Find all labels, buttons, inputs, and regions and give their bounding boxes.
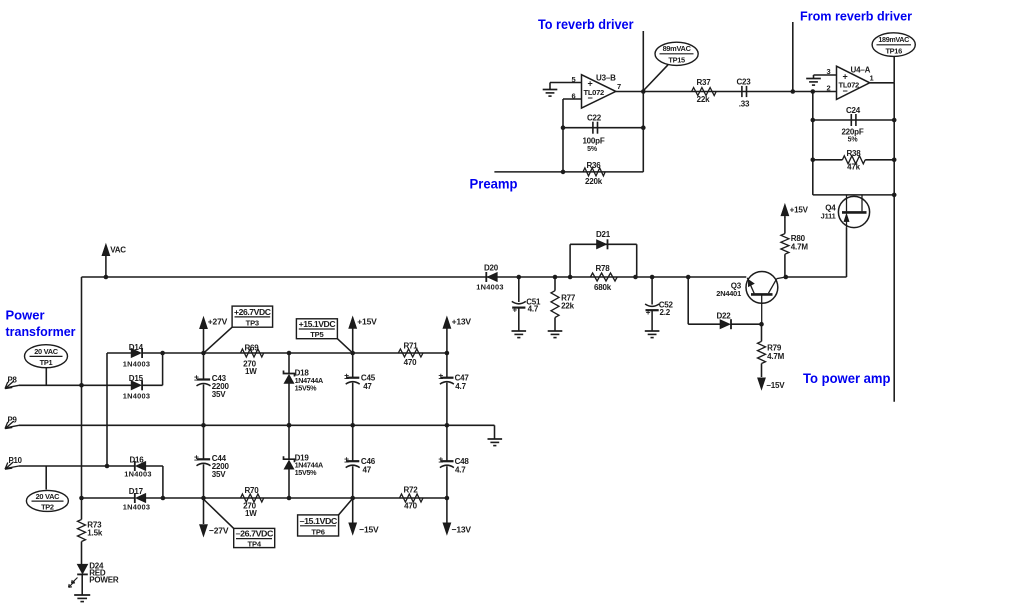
svg-text:89mVAC: 89mVAC <box>663 44 692 53</box>
svg-text:1W: 1W <box>245 367 257 376</box>
svg-text:TP5: TP5 <box>310 330 324 339</box>
capacitor C45 <box>344 353 375 425</box>
wire main mute row <box>82 276 747 278</box>
svg-text:+15V: +15V <box>790 206 809 215</box>
node neg rail left <box>79 496 84 501</box>
svg-text:5%: 5% <box>848 137 859 144</box>
wire P9 gnd drop <box>494 425 496 439</box>
node D18 bottom <box>287 423 292 428</box>
power VAC arrow <box>102 244 126 277</box>
svg-text:U3–B: U3–B <box>596 74 616 83</box>
power +15V arrow R80 <box>781 204 809 218</box>
capacitor C22 <box>582 114 604 154</box>
capacitor C24 <box>841 106 863 144</box>
svg-text:P9: P9 <box>8 416 18 425</box>
svg-text:189mVAC: 189mVAC <box>878 35 909 44</box>
svg-text:1N4003: 1N4003 <box>123 360 150 369</box>
testpoint box TP3 <box>205 306 273 352</box>
svg-text:D20: D20 <box>484 263 499 272</box>
svg-text:±: ± <box>344 371 349 381</box>
wire U4 out <box>870 82 895 84</box>
node C45 bottom <box>350 423 355 428</box>
diode D20 <box>476 263 503 291</box>
resistor R37 <box>692 78 717 104</box>
ground C51 <box>512 331 527 338</box>
resistor R72 <box>400 486 424 511</box>
label Preamp <box>470 177 518 192</box>
svg-text:4.7: 4.7 <box>528 305 539 314</box>
svg-text:D21: D21 <box>596 230 611 239</box>
node R38 left <box>811 158 816 163</box>
node C43 bottom <box>201 423 206 428</box>
svg-text:R38: R38 <box>846 149 861 158</box>
label To reverb driver <box>538 16 634 32</box>
wire D16 down <box>146 466 163 498</box>
wire VAC corner <box>81 277 83 498</box>
wire P10 row <box>19 465 135 467</box>
svg-text:15V5%: 15V5% <box>295 468 318 477</box>
node U4 pin2 rail <box>811 89 816 94</box>
node R38 right <box>892 158 897 163</box>
resistor R70 <box>241 486 264 518</box>
node D21 left <box>568 275 573 280</box>
svg-text:TP15: TP15 <box>668 55 685 64</box>
label From reverb driver <box>800 9 912 24</box>
svg-text:470: 470 <box>404 502 417 511</box>
wire U3 pin5 <box>550 83 582 90</box>
svg-text:R71: R71 <box>403 341 418 350</box>
svg-text:+27V: +27V <box>208 316 228 326</box>
power -15V arrow R79 <box>758 378 786 390</box>
node P10 <box>105 464 110 469</box>
resistor R71 <box>398 341 423 367</box>
node D18 top <box>287 351 292 356</box>
svg-text:7: 7 <box>617 82 621 91</box>
wire TP15 pointer <box>644 65 668 90</box>
svg-text:Power: Power <box>6 308 45 323</box>
testpoint TP2 20VAC <box>26 466 68 511</box>
wire P9 row <box>19 424 495 426</box>
wire negative rail <box>82 497 447 499</box>
svg-text:1N4003: 1N4003 <box>123 392 150 401</box>
connector P8 <box>5 376 19 389</box>
wire U3 left rail <box>562 99 564 172</box>
svg-text:D22: D22 <box>716 312 731 321</box>
diode D15 <box>123 374 150 401</box>
node R36 left <box>561 170 566 175</box>
power +15V arrow <box>349 316 377 353</box>
svg-text:C22: C22 <box>587 114 602 123</box>
transistor Q3 2N4401 <box>716 272 786 325</box>
svg-text:R36: R36 <box>586 161 601 170</box>
node VAC junction <box>104 275 109 280</box>
wire Q3 collector to Q4 <box>786 276 847 278</box>
svg-text:47k: 47k <box>847 163 860 172</box>
svg-text:−27V: −27V <box>209 526 229 536</box>
svg-text:4.7: 4.7 <box>455 382 466 391</box>
node D16-D17 <box>161 496 166 501</box>
svg-text:P8: P8 <box>8 376 18 385</box>
node C44 bottom <box>201 496 206 501</box>
svg-text:+15.1VDC: +15.1VDC <box>299 320 336 329</box>
svg-text:1W: 1W <box>245 509 257 518</box>
svg-text:C23: C23 <box>736 77 751 86</box>
svg-text:100pF: 100pF <box>582 137 604 146</box>
svg-text:4.7: 4.7 <box>455 465 466 474</box>
svg-text:TL072: TL072 <box>839 81 860 90</box>
node C23-U4 junction <box>791 89 796 94</box>
svg-text:TP4: TP4 <box>248 539 262 548</box>
resistor R77 <box>551 277 576 331</box>
svg-text:+: + <box>646 308 651 317</box>
node C22 left <box>561 125 566 130</box>
wire D21 branch <box>570 244 637 277</box>
connector P9 <box>5 416 19 429</box>
ground D24 <box>74 595 90 602</box>
svg-text:22k: 22k <box>697 95 710 104</box>
wire D15 up <box>143 353 163 385</box>
power +13V arrow <box>443 316 472 353</box>
resistor R80 <box>781 218 808 278</box>
wire C22 row <box>563 127 643 129</box>
capacitor C44 <box>194 425 229 498</box>
transistor Q4 J111 <box>821 195 870 228</box>
wire U4 right rail <box>893 83 895 402</box>
node D22-R79 <box>759 322 764 327</box>
svg-text:±: ± <box>194 452 199 462</box>
capacitor C46 <box>344 425 375 498</box>
svg-text:C24: C24 <box>846 106 861 115</box>
svg-text:To reverb driver: To reverb driver <box>538 16 634 32</box>
svg-text:±: ± <box>438 371 443 381</box>
wire positive rail <box>143 352 447 354</box>
svg-text:R69: R69 <box>244 343 259 352</box>
svg-text:22k: 22k <box>561 301 574 310</box>
diode D17 <box>123 487 150 512</box>
resistor R36 <box>583 161 605 186</box>
label To power amp <box>803 371 891 386</box>
resistor R73 <box>78 498 103 564</box>
diode D22 <box>716 312 731 330</box>
capacitor C43 <box>194 353 229 425</box>
svg-text:47: 47 <box>363 382 372 391</box>
node C24 right <box>892 118 897 123</box>
LED D24 RED POWER <box>69 561 119 594</box>
power -27V arrow <box>200 498 229 537</box>
node R78 right <box>633 275 638 280</box>
node C51 top <box>517 275 522 280</box>
svg-text:1.5k: 1.5k <box>87 528 103 537</box>
svg-text:4.7M: 4.7M <box>767 352 785 361</box>
ground U3 pin5 <box>543 90 558 97</box>
svg-text:4.7M: 4.7M <box>791 242 809 251</box>
svg-text:D17: D17 <box>129 487 144 496</box>
resistor R79 <box>758 324 785 377</box>
ground R77 <box>548 331 563 338</box>
svg-text:POWER: POWER <box>89 575 119 584</box>
svg-text:+: + <box>513 306 518 315</box>
svg-text:2.2: 2.2 <box>660 308 671 317</box>
wire Q4 top row <box>813 194 894 196</box>
resistor R38 <box>813 149 894 171</box>
svg-text:5%: 5% <box>587 146 598 153</box>
svg-text:±: ± <box>194 373 199 383</box>
capacitor C48 <box>438 425 469 498</box>
capacitor C47 <box>438 353 469 425</box>
diode D16 <box>124 455 151 478</box>
power -13V arrow <box>443 498 472 535</box>
svg-text:R70: R70 <box>244 486 259 495</box>
wire U4 pin3 <box>814 75 837 78</box>
svg-text:D15: D15 <box>129 374 144 383</box>
label Power transformer <box>6 308 76 340</box>
svg-text:220k: 220k <box>585 177 603 186</box>
testpoint box TP5 <box>296 319 352 353</box>
node D19 bottom <box>287 496 292 501</box>
svg-text:+: + <box>588 79 593 89</box>
svg-text:1N4003: 1N4003 <box>124 470 151 479</box>
svg-text:47: 47 <box>363 465 372 474</box>
wire U4 pin2 <box>793 91 837 93</box>
wire U4 left rail <box>812 92 814 195</box>
ground U4 pin3 <box>806 79 821 86</box>
node C24 left <box>811 118 816 123</box>
svg-text:R72: R72 <box>403 486 418 495</box>
power +27V arrow <box>200 316 228 353</box>
resistor R69 <box>241 343 264 376</box>
svg-text:35V: 35V <box>212 470 226 479</box>
node C47 bottom <box>445 423 450 428</box>
svg-text:TP3: TP3 <box>246 318 259 327</box>
node R77 top <box>553 275 558 280</box>
wire P8 row <box>19 384 131 386</box>
svg-text:±: ± <box>344 455 349 465</box>
svg-text:From reverb driver: From reverb driver <box>800 9 912 24</box>
svg-text:To power amp: To power amp <box>803 371 891 386</box>
testpoint box TP6 <box>298 499 353 537</box>
svg-text:20 VAC: 20 VAC <box>34 347 58 356</box>
svg-text:+26.7VDC: +26.7VDC <box>234 308 271 317</box>
testpoint TP15 89mVAC <box>655 42 698 65</box>
svg-text:15V5%: 15V5% <box>295 383 318 392</box>
wire Q4 gate drop <box>846 227 848 277</box>
svg-text:transformer: transformer <box>6 324 76 339</box>
testpoint TP1 20VAC <box>25 345 68 386</box>
testpoint TP16 189mVAC <box>872 33 915 57</box>
svg-text:D14: D14 <box>129 343 144 352</box>
svg-text:680k: 680k <box>594 283 612 292</box>
svg-text:20 VAC: 20 VAC <box>36 492 60 501</box>
op-amp U3-B <box>572 74 621 109</box>
wire R36 row <box>494 171 643 173</box>
svg-text:P10: P10 <box>9 456 23 465</box>
svg-text:1N4003: 1N4003 <box>476 283 503 292</box>
svg-text:Preamp: Preamp <box>470 177 518 192</box>
capacitor C52 <box>645 277 673 331</box>
ground C52 <box>645 331 660 338</box>
svg-text:1N4003: 1N4003 <box>123 503 150 512</box>
zener D19 <box>284 425 323 498</box>
diode D21 <box>596 230 611 249</box>
wire U3 out drop <box>642 92 644 172</box>
resistor R78 <box>590 264 617 292</box>
node C43 top <box>201 351 206 356</box>
node D19 top <box>287 423 292 428</box>
zener D18 <box>284 353 323 425</box>
node U3 out <box>641 89 646 94</box>
wire U3 pin6 <box>563 98 582 100</box>
node D22 branch top <box>686 275 691 280</box>
svg-text:1: 1 <box>870 74 874 83</box>
svg-text:220pF: 220pF <box>841 127 863 136</box>
wire to-reverb-driver drop <box>642 31 644 92</box>
wire U3 output row <box>616 91 793 93</box>
svg-text:±: ± <box>438 455 443 465</box>
node C52 top <box>650 275 655 280</box>
svg-text:U4–A: U4–A <box>851 66 871 75</box>
node C45 top <box>350 351 355 356</box>
svg-text:TL072: TL072 <box>584 88 605 97</box>
svg-text:J111: J111 <box>821 211 836 220</box>
testpoint box TP4 <box>204 500 275 549</box>
wire D22 branch <box>688 277 761 324</box>
svg-text:−15V: −15V <box>359 525 379 535</box>
svg-text:470: 470 <box>404 358 417 367</box>
svg-text:+13V: +13V <box>452 316 472 326</box>
svg-text:R78: R78 <box>595 264 610 273</box>
wire C24 row <box>813 119 894 121</box>
node C46 bottom <box>350 496 355 501</box>
capacitor C23 <box>736 77 751 108</box>
node Q4 row right <box>892 193 897 198</box>
node Q3 collector <box>784 275 789 280</box>
svg-text:−13V: −13V <box>452 525 472 535</box>
svg-text:−26.7VDC: −26.7VDC <box>235 530 273 539</box>
svg-text:+15V: +15V <box>357 316 377 326</box>
ground P9 <box>488 439 503 446</box>
svg-text:35V: 35V <box>212 390 226 399</box>
node C22 right <box>641 125 646 130</box>
node C47 top <box>445 351 450 356</box>
svg-text:R37: R37 <box>696 78 711 87</box>
svg-text:−15.1VDC: −15.1VDC <box>299 517 337 526</box>
capacitor C51 <box>512 277 541 331</box>
connector P10 <box>5 456 23 469</box>
svg-text:TP6: TP6 <box>311 527 324 536</box>
power -15V arrow supply <box>349 498 379 535</box>
wire TP16 drop <box>893 56 895 82</box>
svg-text:2N4401: 2N4401 <box>716 289 741 298</box>
svg-text:TP16: TP16 <box>885 47 902 56</box>
svg-text:VAC: VAC <box>110 246 126 255</box>
wire D14 row <box>107 353 131 466</box>
svg-text:.33: .33 <box>739 99 750 108</box>
node D14-D15 <box>160 351 165 356</box>
node P8 vac <box>79 383 84 388</box>
wire from-reverb-driver drop <box>792 22 794 92</box>
svg-text:−15V: −15V <box>766 381 785 390</box>
svg-text:TP2: TP2 <box>41 502 54 511</box>
svg-text:D16: D16 <box>129 455 144 464</box>
svg-text:TP1: TP1 <box>40 358 53 367</box>
diode D14 <box>123 343 150 369</box>
op-amp U4-A <box>827 66 874 100</box>
node C48 bottom <box>445 496 450 501</box>
